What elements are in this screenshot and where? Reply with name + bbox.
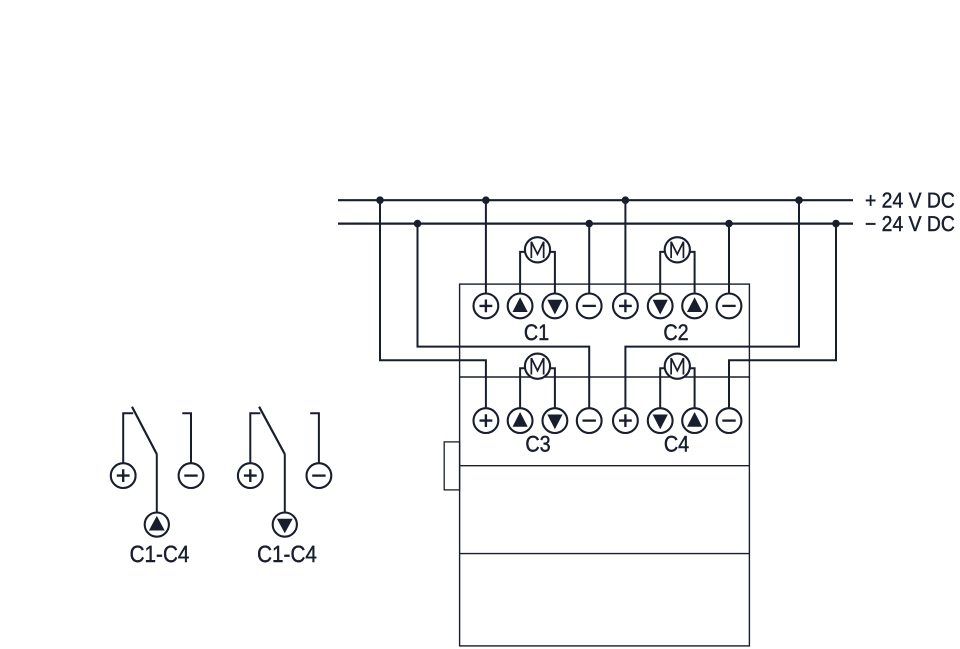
terminal down-arrow C3 (543, 408, 568, 433)
module divider line 1 (460, 376, 750, 378)
terminal + C1 (474, 294, 499, 319)
switch 2: wire - terminal hook (310, 413, 319, 463)
motor M1 (C1) (525, 237, 550, 262)
terminal down-arrow C2 (648, 294, 673, 319)
wire +24V rail to terminal +C2 (624, 200, 626, 294)
wire -24V rail to terminal -C3 (418, 224, 590, 410)
switch 1 terminal + (111, 463, 136, 488)
switch 1: wire + terminal hook (123, 413, 133, 463)
module divider line 3 (460, 553, 750, 555)
motor M1 leads (520, 252, 555, 295)
switch 1: blade (132, 407, 157, 454)
motor M4 leads (660, 368, 694, 409)
svg-text:C1: C1 (524, 320, 549, 345)
DIN-rail tab on left of module (444, 442, 459, 490)
junction dot +24V tap +C2 (622, 196, 630, 204)
svg-text:C4: C4 (664, 432, 689, 457)
terminal + C3 (474, 408, 499, 433)
terminal down-arrow C4 (648, 408, 673, 433)
junction dot +24V tap x380 (376, 196, 384, 204)
terminal down-arrow C1 (543, 294, 568, 319)
motor M3 (C3) (525, 354, 550, 379)
junction dot -24V tap x417 (414, 220, 422, 228)
switch 2: wire blade to arrow terminal (284, 454, 286, 513)
terminal - C1 (577, 294, 602, 319)
switch 1 terminal - (179, 463, 204, 488)
switch 2: wire + terminal hook (250, 413, 260, 463)
junction dot +24V tap x799 (795, 196, 803, 204)
terminal - C3 (577, 408, 602, 433)
wire +24V rail to terminal +C4 (625, 200, 799, 409)
svg-text:+ 24 V DC: + 24 V DC (865, 189, 955, 213)
motor M4 (C4) (665, 354, 690, 379)
terminal up-arrow C3 (508, 408, 533, 433)
wire -24V rail to terminal -C2 (728, 224, 730, 295)
terminal up-arrow C1 (508, 294, 533, 319)
wire -24V rail to terminal -C1 (588, 224, 590, 295)
svg-text:C1-C4: C1-C4 (257, 541, 317, 567)
svg-text:− 24 V DC: − 24 V DC (865, 212, 955, 236)
module outer box (460, 284, 750, 646)
switch 2 terminal + (238, 463, 263, 488)
junction dot -24V tap -C2 (725, 220, 733, 228)
wire -24V rail to terminal -C4 (729, 224, 836, 410)
terminal - C2 (717, 294, 742, 319)
svg-text:C2: C2 (663, 320, 688, 345)
switch 1 output up-arrow terminal (145, 513, 169, 537)
motor M2 leads (660, 252, 694, 295)
switch 2 terminal - (307, 463, 332, 488)
terminal up-arrow C4 (682, 408, 707, 433)
switch 1: wire - terminal hook (182, 413, 191, 463)
svg-text:C3: C3 (525, 432, 550, 457)
wire +24V rail to terminal +C1 (485, 200, 487, 294)
motor M2 (C2) (665, 237, 690, 262)
junction dot +24V tap +C1 (482, 196, 490, 204)
terminal - C4 (717, 408, 742, 433)
-24V DC power rail (338, 223, 853, 225)
wire +24V rail to terminal +C3 (380, 200, 486, 409)
motor M3 leads (520, 368, 555, 409)
junction dot -24V tap -C1 (585, 220, 593, 228)
switch 2: blade (259, 407, 285, 454)
junction dot -24V tap x836 (832, 220, 840, 228)
module divider line 2 (460, 465, 750, 467)
terminal up-arrow C2 (682, 294, 707, 319)
terminal + C4 (613, 408, 638, 433)
+24V DC power rail (338, 199, 853, 201)
switch 1: wire blade to arrow terminal (156, 454, 158, 513)
svg-text:C1-C4: C1-C4 (130, 541, 190, 567)
terminal + C2 (613, 294, 638, 319)
switch 2 output dn-arrow terminal (273, 513, 297, 537)
